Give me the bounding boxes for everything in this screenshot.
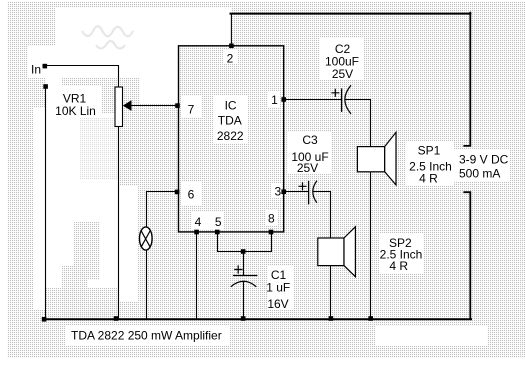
wire In node to VR1 top	[45, 66, 119, 88]
wire IC pin 5 to pin 8 bridge	[218, 232, 272, 252]
node IC pin 7	[175, 103, 180, 108]
node IC pin 5	[215, 230, 220, 235]
speaker SP2 body	[318, 238, 344, 266]
svg-text:In: In	[31, 63, 41, 77]
speaker SP1 body	[357, 147, 384, 172]
svg-text:3: 3	[274, 185, 281, 199]
svg-text:IC: IC	[225, 99, 237, 113]
wire battery positive lead down right side	[464, 13, 470, 146]
wire IC pin 3 to C3	[284, 191, 309, 193]
wire pin 2 to top rail	[230, 14, 232, 46]
wire IC pin 4 to ground rail	[196, 232, 198, 319]
node C1 top junction	[241, 249, 246, 254]
svg-text:3-9 V DC: 3-9 V DC	[459, 153, 509, 167]
svg-text:2822: 2822	[217, 129, 244, 143]
node IC pin 6	[175, 190, 180, 195]
wire left input ground rail	[45, 87, 47, 320]
speaker SP2 cone	[344, 227, 355, 277]
capacitor C3 plus sign	[299, 182, 307, 190]
capacitor C2 plus sign	[331, 89, 339, 97]
capacitor C2 straight plate	[341, 88, 343, 112]
wire battery negative lead to ground rail	[464, 192, 470, 319]
node IC pin 8	[269, 230, 274, 235]
wire SP1 bottom to ground rail	[370, 172, 372, 319]
node SP1 ground junction	[368, 316, 373, 321]
wire IC pin 1 to C2	[284, 99, 342, 101]
svg-text:8: 8	[268, 212, 275, 226]
node In	[43, 64, 48, 69]
node IC pin 1	[281, 97, 286, 102]
node left rail top	[43, 84, 48, 89]
svg-text:C3: C3	[302, 133, 318, 147]
svg-text:6: 6	[188, 188, 195, 202]
svg-text:25V: 25V	[332, 67, 353, 81]
node IC pin 3	[281, 189, 286, 194]
svg-text:16V: 16V	[267, 297, 288, 311]
wire VR1 wiper to IC pin 7	[128, 105, 178, 107]
lamp body	[140, 227, 153, 250]
svg-text:10K Lin: 10K Lin	[55, 104, 96, 118]
wire SP2 bottom to ground rail	[330, 266, 332, 319]
speaker SP1 cone	[385, 132, 396, 185]
wire C1 bottom lead to ground rail	[243, 282, 245, 319]
node VR1 ground junction	[114, 316, 119, 321]
lamp X filament	[141, 231, 150, 248]
capacitor C1 straight plate	[233, 275, 257, 277]
svg-text:4: 4	[195, 215, 202, 229]
wire C2 to SP1 top	[346, 100, 371, 147]
svg-text:TDA 2822 250 mW Amplifier: TDA 2822 250 mW Amplifier	[71, 329, 222, 343]
capacitor C3 curved plate	[313, 181, 317, 203]
svg-text:4 R: 4 R	[389, 259, 408, 273]
node C1 ground junction	[241, 316, 246, 321]
wire C1 top lead	[243, 252, 245, 275]
IC U1 TDA2822 body	[179, 46, 284, 232]
svg-text:1: 1	[271, 93, 278, 107]
capacitor C1 plus sign	[234, 265, 242, 273]
wire bottom ground rail	[44, 318, 471, 320]
wire top supply rail	[231, 13, 471, 15]
svg-text:7: 7	[188, 103, 195, 117]
wire IC pin 6 to lamp top	[147, 192, 178, 228]
svg-text:500 mA: 500 mA	[459, 167, 500, 181]
capacitor C1 curved plate	[231, 281, 256, 287]
node ground rail left corner	[42, 317, 47, 322]
capacitor C2 curved plate	[345, 85, 351, 114]
wire lamp bottom to ground rail	[146, 250, 148, 319]
svg-text:5: 5	[215, 215, 222, 229]
node IC pin 4	[194, 230, 199, 235]
node SP2 ground junction	[329, 316, 334, 321]
node IC pin 2	[229, 44, 234, 49]
svg-text:4 R: 4 R	[419, 172, 438, 186]
svg-text:SP1: SP1	[418, 144, 441, 158]
wire C3 to SP2 top	[314, 192, 331, 239]
svg-text:2: 2	[227, 52, 234, 66]
capacitor C3 straight plate	[308, 181, 310, 205]
potentiometer VR1 body	[115, 87, 123, 127]
svg-text:1 uF: 1 uF	[266, 281, 290, 295]
potentiometer VR1 wiper arrowhead	[123, 100, 132, 111]
wire VR1 bottom to ground rail	[118, 126, 120, 318]
svg-text:25V: 25V	[297, 161, 318, 175]
svg-text:TDA: TDA	[218, 114, 242, 128]
